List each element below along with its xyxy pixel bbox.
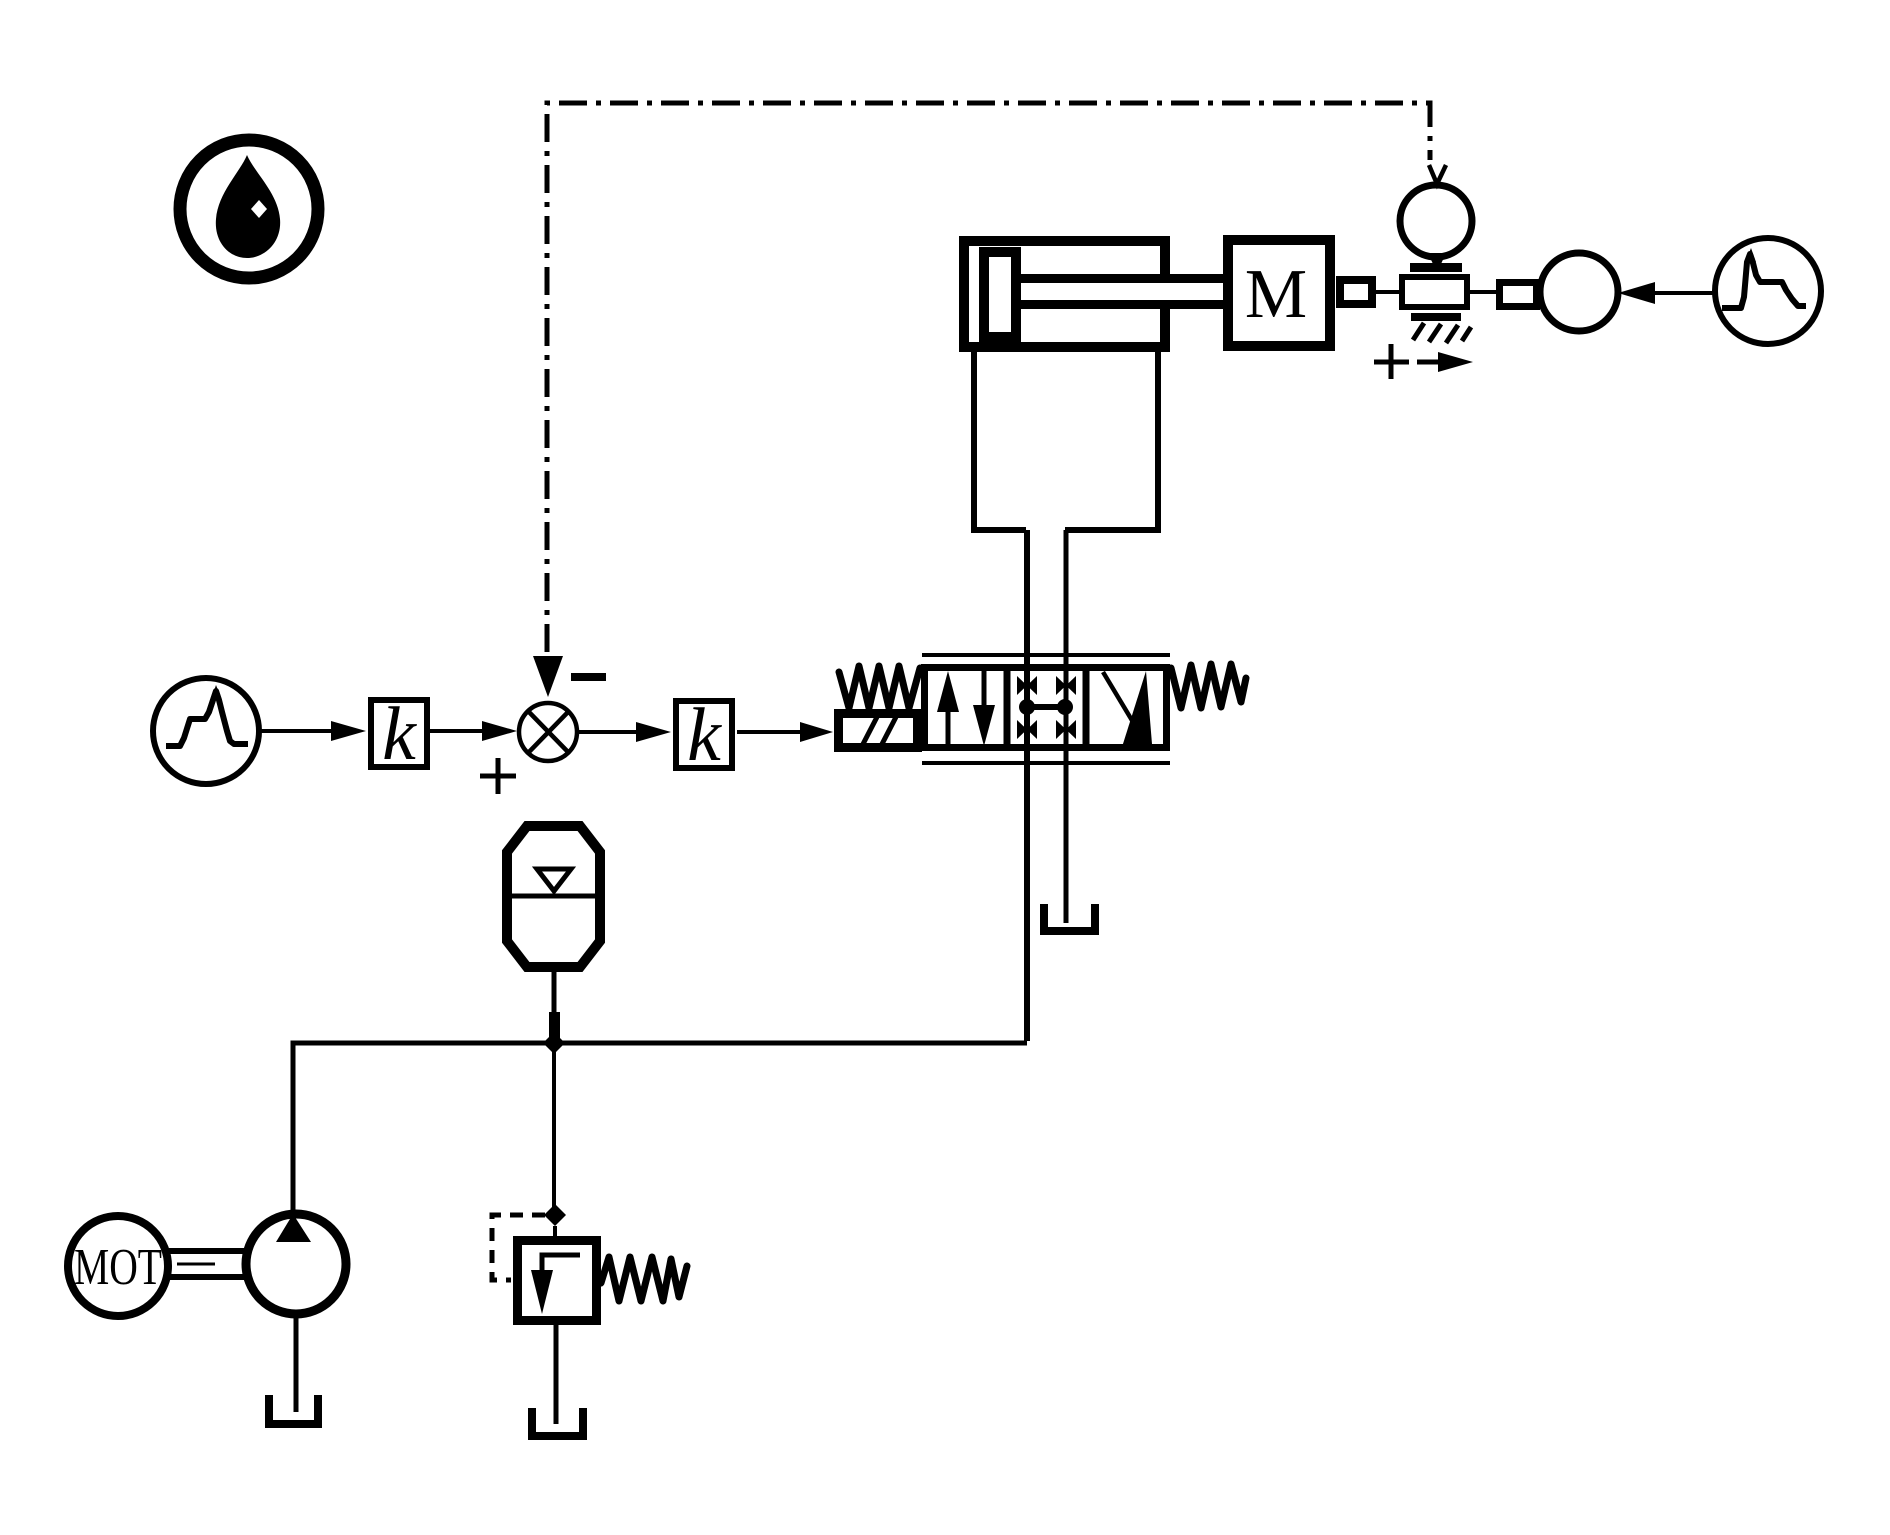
accumulator: [507, 826, 600, 967]
cell1 up arrow: [946, 680, 951, 745]
svg-text:k: k: [382, 692, 417, 776]
arrow from signal source into sensor: [1618, 282, 1714, 304]
hydraulic pump: [246, 1214, 346, 1314]
displacement transducer: [1376, 277, 1500, 307]
cell3 cross arrow: [1122, 671, 1152, 747]
feedback arrow into summing junction: [533, 656, 563, 697]
cell2 blocked ports top: [1017, 676, 1027, 695]
arrow k1 to summing junction: [430, 721, 517, 741]
line to relief valve: [552, 1043, 556, 1212]
cell dividers: [1007, 664, 1086, 751]
junction node: [543, 1032, 565, 1054]
relief node: [544, 1204, 566, 1226]
piston: [984, 252, 1016, 337]
arrow source to k1: [259, 721, 366, 741]
cell3 cross line: [1103, 672, 1148, 747]
hydraulic cylinder body: [964, 241, 1165, 347]
relief to tank line: [554, 1325, 559, 1424]
velocity sensor circle: [1540, 253, 1618, 331]
mass block M: [1228, 240, 1330, 346]
open arrowhead at position sensor: [1429, 165, 1446, 184]
piston rod: [1016, 279, 1228, 305]
tank under valve: [1044, 904, 1095, 931]
servo valve: [737, 655, 1246, 763]
plus label: [480, 758, 516, 794]
gain block k2: [676, 693, 732, 777]
relief valve: [518, 1241, 597, 1321]
cylinder mounting body: [974, 350, 1158, 530]
arrow sum to k2: [578, 722, 671, 742]
hydraulic fluid properties icon: [180, 140, 318, 278]
pump tank: [269, 1395, 318, 1424]
summing junction: [519, 703, 577, 761]
minus label: [571, 673, 606, 681]
svg-text:k: k: [687, 693, 722, 777]
electric motor MOT: [68, 1216, 168, 1316]
relief tank: [532, 1408, 583, 1436]
rod end-piece box: [1340, 280, 1372, 304]
port line B: [1064, 530, 1069, 923]
svg-text:MOT: MOT: [74, 1239, 162, 1296]
direction arrow: [1417, 352, 1473, 372]
command signal source: [153, 678, 259, 784]
pump suction line: [294, 1314, 299, 1412]
proportional solenoid: [839, 714, 918, 748]
cell2 bridge: [1028, 704, 1064, 710]
valve body: [925, 668, 1167, 748]
relief valve spring: [601, 1257, 687, 1301]
valve right spring: [1171, 664, 1246, 708]
pilot dashed line: [492, 1215, 545, 1280]
force signal source: [1715, 238, 1821, 344]
supply line: [293, 1043, 1027, 1222]
valve top rail: [922, 653, 1170, 657]
svg-text:M: M: [1245, 256, 1307, 333]
valve left spring: [839, 666, 920, 708]
arrow k2 to valve: [737, 730, 802, 734]
motor-pump shaft: [168, 1251, 246, 1277]
cell2 blocked ports bottom: [1017, 720, 1027, 739]
gain block k1: [371, 692, 427, 776]
transducer ground: [1411, 313, 1471, 343]
valve bottom rail: [922, 761, 1170, 765]
plus sign displacement direction: [1374, 344, 1409, 379]
port line A: [1024, 530, 1030, 1041]
cell1 down arrow: [982, 671, 987, 737]
accumulator stem: [552, 972, 557, 1040]
connector box to sensor: [1500, 283, 1537, 307]
position sensor: [1400, 185, 1472, 272]
feedback dash-dot line: [547, 103, 1430, 652]
